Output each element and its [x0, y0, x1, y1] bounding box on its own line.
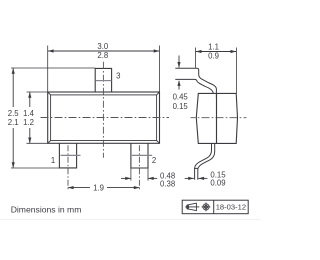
pin 1 (bottom left lead)	[59, 143, 76, 168]
side view top lead outer line	[175, 68, 216, 98]
side view top lead inner line	[175, 79, 213, 93]
svg-text:1: 1	[51, 156, 55, 165]
title block box	[182, 200, 248, 214]
svg-text:2.1: 2.1	[8, 118, 19, 127]
dimension labels	[8, 42, 226, 192]
svg-text:18-03-12: 18-03-12	[216, 203, 246, 212]
dimension 1.4/1.2 extension lines	[27, 92, 48, 143]
centerline pin 2	[138, 145, 140, 190]
centerline horizontal front view	[41, 117, 170, 119]
svg-text:2.8: 2.8	[97, 51, 108, 60]
centerline pin 1	[67, 145, 69, 190]
body front view outer outline	[48, 92, 160, 143]
side view body	[196, 93, 237, 143]
side view bottom lead	[195, 143, 212, 179]
dimension 0.48/0.38 extension lines	[131, 169, 148, 181]
svg-text:0.45: 0.45	[173, 92, 189, 101]
svg-text:0.38: 0.38	[160, 179, 175, 188]
cross mark pin 2	[132, 154, 152, 156]
svg-text:0.15: 0.15	[173, 102, 189, 111]
svg-text:1.2: 1.2	[23, 118, 34, 127]
dimension 1.9 line	[68, 187, 90, 189]
centerline vertical pin 3 / package	[102, 62, 104, 158]
svg-text:1.9: 1.9	[93, 183, 104, 192]
projection symbol (frustum)	[185, 203, 199, 210]
svg-text:1.1: 1.1	[208, 43, 219, 52]
svg-text:3.0: 3.0	[97, 42, 109, 51]
body front view inner mold line	[48, 92, 160, 143]
dimension 3.0/2.8 extension lines	[48, 46, 160, 93]
centerline horizontal side view	[191, 117, 247, 119]
pin 2 (bottom right lead)	[131, 143, 148, 168]
dimension 3.0/2.8 line	[48, 50, 159, 52]
dimension 2.5/2.1 line	[12, 68, 14, 107]
svg-text:0.09: 0.09	[210, 179, 225, 188]
cross mark pin 1	[61, 154, 81, 156]
svg-text:Dimensions in mm: Dimensions in mm	[11, 205, 82, 215]
svg-text:2.5: 2.5	[8, 109, 20, 118]
pin 3 (top lead)	[95, 68, 111, 92]
dimension 0.48/0.38 arrows	[121, 177, 131, 179]
side view lead frame line through body	[216, 93, 218, 143]
faint page rule	[0, 219, 260, 221]
projection symbol (circles)	[202, 203, 211, 212]
svg-text:2: 2	[152, 156, 156, 165]
svg-text:1.4: 1.4	[23, 109, 35, 118]
svg-text:3: 3	[116, 71, 120, 80]
cross mark pin 3	[96, 80, 112, 82]
dimension 2.5/2.1 extension lines	[11, 68, 95, 168]
dimension 0.45/0.15 arrows	[178, 56, 180, 68]
dimension 1.1/0.9 line	[196, 51, 236, 53]
dimension 1.4/1.2 line	[29, 92, 31, 107]
dimension 0.15/0.09 arrows	[185, 177, 194, 179]
dimension 1.1/0.9 extension lines	[195, 48, 236, 94]
svg-text:0.9: 0.9	[208, 52, 219, 61]
